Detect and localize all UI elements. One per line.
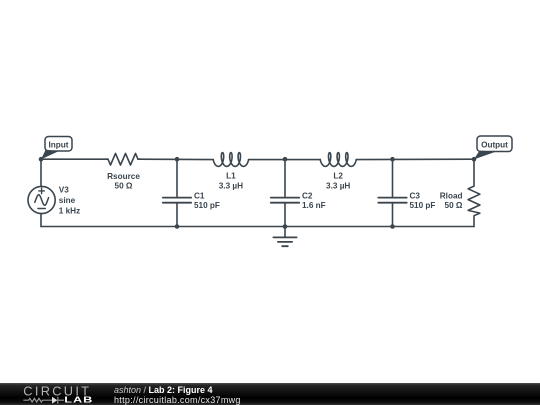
wire source top bbox=[40, 159, 42, 186]
logo squiggle wire bbox=[23, 397, 64, 404]
svg-text:Rload: Rload bbox=[440, 191, 463, 200]
svg-text:L2: L2 bbox=[333, 172, 343, 181]
svg-text:Output: Output bbox=[481, 140, 508, 149]
capacitor C2 stem top bbox=[284, 159, 286, 197]
footer bar bbox=[0, 383, 540, 405]
svg-text:510 pF: 510 pF bbox=[410, 201, 436, 210]
V3 minus sign bbox=[38, 208, 45, 210]
svg-text:1 kHz: 1 kHz bbox=[59, 207, 80, 216]
ground bars bbox=[273, 237, 296, 246]
capacitor C2 stem bottom bbox=[284, 203, 286, 227]
svg-text:Input: Input bbox=[48, 140, 68, 149]
node C1 bottom dot bbox=[175, 224, 180, 229]
V3 sine glyph bbox=[35, 195, 49, 206]
svg-text:50 Ω: 50 Ω bbox=[115, 182, 133, 191]
capacitor C1 stem bottom bbox=[176, 203, 178, 227]
capacitor C3 plates bbox=[378, 198, 406, 203]
input flag box bbox=[45, 137, 72, 152]
wire L2 to output node bbox=[356, 158, 474, 160]
svg-text:V3: V3 bbox=[59, 185, 69, 194]
svg-text:C2: C2 bbox=[302, 191, 313, 200]
voltage source V3 circle bbox=[28, 186, 55, 213]
node C1 top dot bbox=[175, 157, 180, 162]
node C3 top dot bbox=[390, 157, 395, 162]
svg-text:C3: C3 bbox=[410, 191, 421, 200]
capacitor C1 plates bbox=[163, 198, 191, 203]
inductor L2 bbox=[320, 153, 356, 167]
wire source bottom bbox=[40, 214, 42, 227]
wire top rail input to Rsource bbox=[41, 158, 108, 160]
wire Rsource to L1 bbox=[138, 158, 213, 160]
svg-text:50 Ω: 50 Ω bbox=[445, 201, 463, 210]
node C3 bottom dot bbox=[390, 224, 395, 229]
output flag pointer bbox=[474, 151, 496, 160]
node input dot bbox=[39, 157, 44, 162]
ground stem bbox=[284, 227, 286, 238]
footer url bbox=[114, 395, 241, 405]
svg-text:sine: sine bbox=[59, 196, 76, 205]
CircuitLab logo bbox=[0, 383, 100, 405]
svg-text:L1: L1 bbox=[226, 172, 236, 181]
V3 plus sign bbox=[39, 188, 45, 194]
capacitor C1 stem top bbox=[176, 159, 178, 197]
svg-text:1.6 nF: 1.6 nF bbox=[302, 201, 326, 210]
node C2 top dot bbox=[283, 157, 288, 162]
svg-text:510 pF: 510 pF bbox=[194, 201, 220, 210]
capacitor C2 plates bbox=[271, 198, 299, 203]
capacitor C3 stem top bbox=[392, 159, 394, 197]
svg-text:3.3 µH: 3.3 µH bbox=[326, 181, 350, 190]
svg-text:C1: C1 bbox=[194, 191, 205, 200]
node ground dot bbox=[283, 224, 288, 229]
node output dot bbox=[472, 157, 477, 162]
inductor L1 bbox=[213, 153, 248, 167]
svg-text:Rsource: Rsource bbox=[107, 172, 140, 181]
wire L1 to L2 bbox=[249, 159, 321, 161]
svg-text:3.3 µH: 3.3 µH bbox=[219, 181, 243, 190]
input flag pointer bbox=[41, 150, 59, 160]
resistor Rsource bbox=[106, 153, 140, 165]
capacitor C3 stem bottom bbox=[392, 203, 394, 227]
wire bottom rail bbox=[41, 226, 474, 228]
logo diode bbox=[52, 397, 57, 404]
resistor Rload bbox=[468, 159, 480, 226]
svg-text:LAB: LAB bbox=[64, 396, 93, 405]
footer title bbox=[114, 385, 213, 395]
output flag box bbox=[477, 136, 512, 152]
